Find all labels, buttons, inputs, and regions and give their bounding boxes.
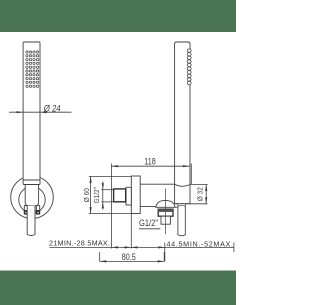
G1/2 valve square (bold) bbox=[114, 189, 126, 202]
hose coil on tube bbox=[187, 49, 191, 85]
holder ring outer circle bbox=[11, 176, 54, 219]
tube bottom line right bbox=[175, 203, 207, 205]
dia 60 extension lines bbox=[89, 175, 132, 177]
118 dimension bbox=[112, 164, 192, 249]
dome brim stub bbox=[175, 206, 178, 208]
svg-text:21MIN.-28.5MAX.: 21MIN.-28.5MAX. bbox=[49, 239, 110, 248]
bell centerline bbox=[164, 189, 166, 235]
lower handle in holder bbox=[25, 185, 38, 207]
holder ring inner circle bbox=[19, 187, 45, 213]
bottom green banner bbox=[0, 271, 236, 305]
outlet arm top line bbox=[140, 183, 174, 185]
dia 60 dimension line bbox=[90, 176, 92, 213]
svg-text:Ø 32: Ø 32 bbox=[197, 187, 205, 201]
G1/2 arrows bbox=[102, 183, 104, 208]
wall line extension down bbox=[130, 214, 132, 249]
svg-text:G1/2": G1/2" bbox=[93, 187, 101, 204]
svg-text:44.5MIN.-52MAX.: 44.5MIN.-52MAX. bbox=[167, 240, 234, 249]
hand shower handle front view bbox=[23, 42, 40, 185]
bell nut bbox=[158, 209, 173, 216]
tube bottom arc bbox=[175, 184, 190, 186]
dia 60 arrows bbox=[90, 176, 92, 213]
dia 24 arrows bbox=[17, 111, 47, 113]
dia 24 dimension line bbox=[9, 111, 72, 113]
holder clip right bbox=[36, 206, 39, 212]
valve in-wall body (tall rect) bbox=[131, 176, 140, 214]
svg-text:118: 118 bbox=[144, 157, 156, 167]
medium rect bbox=[126, 187, 131, 205]
spray face dots bbox=[26, 51, 39, 88]
svg-text:Ø 60: Ø 60 bbox=[83, 188, 91, 202]
G1/2 leader underline bbox=[139, 228, 160, 230]
bell dome bbox=[156, 200, 175, 207]
118 arrows bbox=[112, 165, 190, 167]
holder clip left bbox=[24, 206, 27, 212]
top green banner bbox=[0, 0, 236, 32]
dia 32 dimension bbox=[190, 183, 208, 185]
dia 32 arrows bbox=[205, 185, 207, 204]
handle joint line bbox=[23, 179, 40, 181]
hose below right tube bbox=[178, 204, 185, 236]
hose below handle bbox=[27, 206, 35, 236]
right tube (side view) bbox=[175, 42, 190, 204]
outlet arm bottom line left bbox=[140, 205, 157, 207]
G1/2 extension lines bbox=[101, 189, 113, 191]
hose nut top arc bbox=[178, 205, 185, 206]
G1/2 dimension line bbox=[102, 182, 104, 210]
svg-text:80.5: 80.5 bbox=[122, 252, 136, 262]
svg-text:Ø 24: Ø 24 bbox=[43, 103, 61, 114]
arrows 21-28.5 dimension bbox=[100, 246, 165, 262]
nipple bbox=[161, 216, 170, 224]
bottom dimension chain line bbox=[50, 243, 235, 262]
svg-text:G1/2": G1/2" bbox=[139, 217, 158, 228]
